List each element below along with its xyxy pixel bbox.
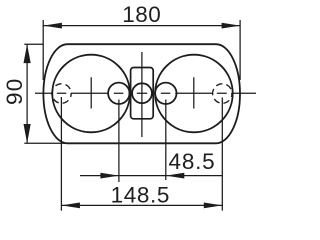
svg-text:180: 180 bbox=[122, 2, 161, 27]
svg-text:148.5: 148.5 bbox=[111, 183, 170, 208]
svg-text:48.5: 48.5 bbox=[169, 149, 216, 174]
svg-text:90: 90 bbox=[2, 78, 27, 105]
